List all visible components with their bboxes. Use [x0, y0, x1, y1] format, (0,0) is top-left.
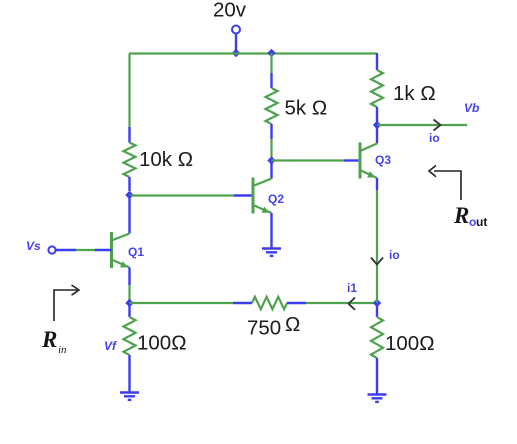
arrow Rout — [429, 166, 461, 201]
svg-text:Vs: Vs — [26, 239, 41, 253]
svg-text:Q1: Q1 — [128, 245, 144, 259]
svg-text:100Ω: 100Ω — [385, 332, 435, 355]
wire bottom left segment — [130, 302, 234, 304]
junction node output — [373, 121, 381, 129]
svg-text:R: R — [453, 203, 469, 228]
resistor R2 5k — [266, 53, 278, 161]
wire emitter to node — [128, 285, 130, 303]
wire Q2 collector pin — [270, 161, 272, 179]
arrow io emitter — [371, 258, 383, 265]
resistor Rf 750 — [233, 297, 306, 309]
wire Q3 base pin — [344, 159, 360, 161]
svg-text:io: io — [429, 131, 440, 145]
wire Q1 emitter pin — [128, 268, 130, 286]
svg-text:Vb: Vb — [464, 101, 479, 115]
svg-text:Q3: Q3 — [375, 153, 391, 167]
wire output Vo — [377, 124, 467, 126]
svg-text:R: R — [41, 327, 57, 352]
arrow Rin — [54, 285, 79, 321]
wire top rail — [129, 52, 377, 54]
svg-text:in: in — [58, 344, 67, 356]
resistor RE3 100 — [371, 303, 383, 394]
transistor Q1 — [112, 232, 130, 268]
wire Q3 emitter down — [376, 190, 378, 303]
ground right — [368, 395, 387, 402]
resistor R3 1k — [371, 53, 383, 125]
junction node feedback right — [373, 299, 381, 307]
wire Q3 emitter pin — [376, 178, 378, 190]
junction node feedback left — [125, 299, 133, 307]
junction node 5k bottom — [267, 156, 275, 164]
junction node 5k top — [267, 49, 275, 57]
power terminal 20V — [232, 26, 240, 53]
wire left branch upper — [128, 54, 130, 129]
arrow i1 current — [349, 298, 356, 310]
wire Q3 collector pin — [376, 125, 378, 144]
junction node 10k bottom — [125, 191, 133, 199]
wire Q1 collector pin — [128, 196, 130, 234]
svg-text:io: io — [389, 248, 400, 262]
svg-text:Q2: Q2 — [268, 192, 284, 206]
svg-text:750: 750 — [247, 317, 281, 340]
ground Q2 — [262, 249, 281, 256]
svg-text:10k Ω: 10k Ω — [139, 148, 193, 171]
wire Vs to Q1 base — [56, 249, 112, 251]
resistor R1 10k — [124, 127, 136, 191]
transistor Q2 — [253, 178, 272, 214]
wire bottom right segment — [306, 302, 377, 304]
svg-text:20v: 20v — [213, 0, 247, 22]
svg-text:Ω: Ω — [285, 313, 300, 336]
arrow io output — [434, 120, 441, 131]
wire Q2 base pin — [234, 194, 253, 196]
resistor RE1 100 — [124, 303, 136, 392]
svg-text:Vf: Vf — [104, 339, 117, 353]
terminal Vs — [48, 246, 55, 253]
svg-text:ut: ut — [476, 215, 487, 229]
svg-text:i1: i1 — [347, 281, 357, 295]
svg-text:100Ω: 100Ω — [137, 332, 187, 355]
svg-text:1k Ω: 1k Ω — [393, 82, 436, 105]
svg-text:5k Ω: 5k Ω — [285, 97, 328, 120]
transistor Q3 — [360, 143, 377, 179]
junction supply node — [232, 49, 240, 57]
wire 5k bottom to Q3 base — [272, 159, 345, 161]
wire Q2 emitter to ground — [270, 213, 272, 248]
wire to Q2 base — [130, 194, 235, 196]
ground left — [120, 393, 139, 400]
